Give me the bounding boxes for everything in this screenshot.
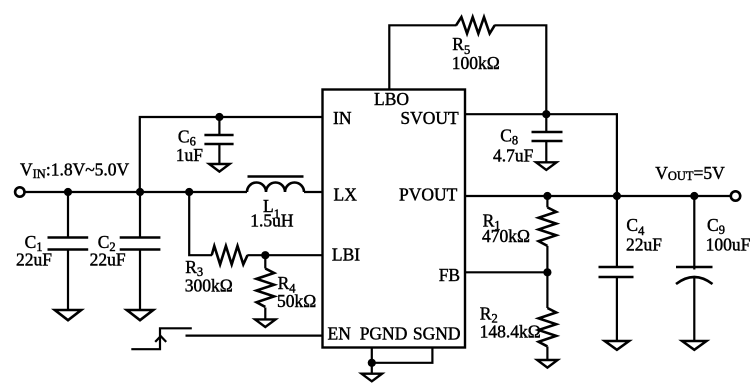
svg-text:FB: FB — [439, 265, 460, 285]
svg-text:PVOUT: PVOUT — [399, 184, 458, 204]
svg-text:PGND: PGND — [360, 323, 408, 343]
svg-text:EN: EN — [328, 323, 352, 343]
svg-text:SGND: SGND — [413, 323, 461, 343]
svg-text:22uF: 22uF — [626, 234, 662, 254]
svg-text:LX: LX — [334, 184, 358, 204]
svg-text:LBO: LBO — [374, 89, 409, 109]
svg-text:IN: IN — [333, 108, 352, 128]
svg-text:4.7uF: 4.7uF — [493, 146, 534, 166]
svg-text:LBI: LBI — [332, 245, 360, 265]
svg-text:22uF: 22uF — [90, 250, 126, 270]
svg-text:470kΩ: 470kΩ — [482, 226, 530, 246]
svg-text:1.5uH: 1.5uH — [250, 211, 294, 231]
svg-text:100uF: 100uF — [706, 234, 751, 254]
svg-text:SVOUT: SVOUT — [400, 108, 459, 128]
svg-text:300kΩ: 300kΩ — [185, 275, 233, 295]
svg-text:148.4kΩ: 148.4kΩ — [480, 321, 541, 341]
svg-text:50kΩ: 50kΩ — [277, 291, 316, 311]
svg-text:1uF: 1uF — [176, 145, 204, 165]
svg-text:100kΩ: 100kΩ — [452, 53, 500, 73]
svg-text:22uF: 22uF — [16, 250, 52, 270]
